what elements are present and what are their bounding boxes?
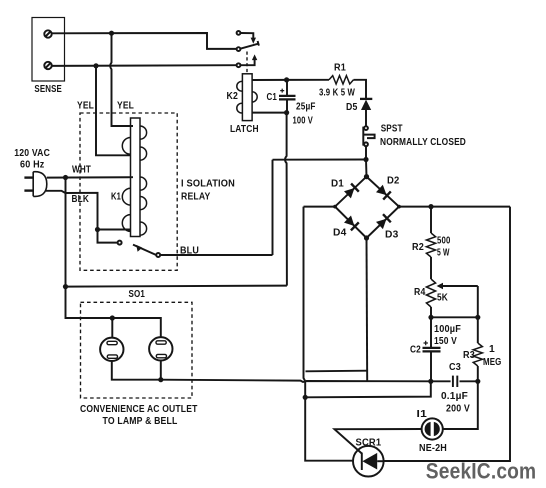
svg-text:CONVENIENCE AC OUTLET: CONVENIENCE AC OUTLET bbox=[80, 404, 198, 415]
wire to up arrow bbox=[240, 60, 254, 65]
svg-text:5K: 5K bbox=[437, 293, 448, 304]
svg-text:I1: I1 bbox=[417, 409, 428, 420]
svg-text:0.1µF: 0.1µF bbox=[441, 391, 468, 402]
wire right rail bbox=[384, 207, 510, 461]
wire bridge left to rail bbox=[304, 206, 336, 208]
svg-text:120 VAC: 120 VAC bbox=[14, 148, 50, 159]
svg-text:TO LAMP & BELL: TO LAMP & BELL bbox=[103, 416, 178, 427]
wire to left outlet bbox=[111, 318, 113, 338]
node below SPST bbox=[363, 157, 368, 162]
svg-text:BLU: BLU bbox=[180, 246, 199, 257]
node left rail 286 bbox=[63, 284, 68, 289]
node outlet bottom bbox=[158, 377, 163, 382]
svg-text:K2: K2 bbox=[227, 91, 239, 102]
svg-text:LATCH: LATCH bbox=[230, 124, 259, 135]
wire winding exit to BLK node bbox=[98, 229, 131, 231]
bridge edges bbox=[335, 177, 399, 238]
node bridge left bbox=[333, 205, 337, 209]
wire K2 top to C1 node bbox=[252, 79, 287, 81]
svg-text:NE-2H: NE-2H bbox=[419, 443, 447, 454]
svg-text:R3: R3 bbox=[463, 350, 475, 361]
svg-text:C3: C3 bbox=[449, 362, 461, 373]
svg-text:C1: C1 bbox=[267, 92, 278, 103]
wire C1 bottom drop bbox=[285, 113, 287, 286]
node C3 right bbox=[475, 379, 480, 384]
node bridge bottom bbox=[364, 235, 369, 240]
isolation relay dashed box bbox=[80, 113, 177, 270]
node C1 top bbox=[284, 77, 289, 82]
node SO1 feed bbox=[110, 315, 115, 320]
wire YEL left vertical bbox=[96, 66, 131, 156]
node junction bottom yel bbox=[93, 63, 98, 68]
resistor R1 bbox=[329, 76, 354, 84]
wire K2 bottom to C1 bottom node bbox=[252, 112, 287, 114]
svg-text:3.9 K 5 W: 3.9 K 5 W bbox=[319, 88, 355, 99]
plug 120VAC bbox=[24, 176, 33, 178]
capacitor C2 bbox=[430, 317, 432, 347]
svg-text:100µF: 100µF bbox=[434, 324, 461, 335]
sense screw top bbox=[44, 30, 51, 37]
svg-text:MEG: MEG bbox=[483, 357, 502, 368]
svg-text:D3: D3 bbox=[385, 230, 399, 241]
outlet right bbox=[149, 337, 172, 360]
wire SPST to node bbox=[365, 146, 367, 159]
relay K2 contact top bbox=[237, 31, 241, 35]
R4 wiper arrow bbox=[442, 285, 478, 287]
capacitor C3 bbox=[431, 380, 451, 382]
svg-text:100 V: 100 V bbox=[293, 116, 314, 127]
wire long 286 bbox=[66, 286, 287, 287]
svg-text:60 Hz: 60 Hz bbox=[20, 160, 45, 171]
wire SPST node to bridge bbox=[365, 160, 368, 177]
wire mid vertical rail bbox=[304, 207, 353, 461]
svg-text:SENSE: SENSE bbox=[34, 84, 62, 95]
node junction top yel bbox=[109, 31, 114, 36]
wire sense bottom bbox=[52, 64, 237, 67]
svg-text:D1: D1 bbox=[331, 179, 344, 190]
diode D2 bbox=[376, 185, 387, 195]
svg-text:SO1: SO1 bbox=[129, 289, 146, 300]
svg-text:200 V: 200 V bbox=[446, 404, 470, 415]
svg-text:YEL: YEL bbox=[77, 101, 94, 112]
capacitor C1 bbox=[286, 80, 288, 95]
wire WHT bbox=[47, 176, 133, 178]
svg-text:5 W: 5 W bbox=[437, 248, 450, 259]
wire R3 bottom to lamp bbox=[443, 381, 478, 429]
outlet left bbox=[100, 338, 123, 361]
mechanical link dashed bbox=[246, 52, 248, 74]
wire R1 to D5 bbox=[354, 80, 367, 99]
svg-text:R2: R2 bbox=[412, 242, 424, 253]
wires outlet bottoms bbox=[112, 361, 161, 380]
svg-text:NORMALLY CLOSED: NORMALLY CLOSED bbox=[380, 137, 466, 148]
K1 top winding bbox=[140, 126, 147, 139]
switch SPST normally closed bbox=[364, 126, 368, 130]
node R2 top bbox=[428, 204, 433, 209]
svg-text:SCR1: SCR1 bbox=[356, 438, 382, 449]
svg-text:R4: R4 bbox=[414, 287, 426, 298]
potentiometer R4 bbox=[426, 279, 435, 307]
wire R2 to R4 bbox=[430, 257, 432, 279]
wire node join 317 bbox=[431, 316, 478, 318]
neon lamp I1 bbox=[422, 418, 443, 439]
svg-text:SPST: SPST bbox=[381, 124, 403, 135]
resistor R3 bbox=[477, 317, 479, 343]
outlet box SO1 dashed bbox=[81, 302, 193, 398]
svg-text:150 V: 150 V bbox=[434, 336, 457, 347]
wire branch to mid rail bbox=[306, 370, 368, 373]
svg-text:500: 500 bbox=[437, 236, 451, 247]
wire BLU riser bbox=[272, 160, 274, 255]
wire long bottom to C3 node bbox=[161, 380, 431, 382]
diode D5 bbox=[360, 98, 372, 100]
relay coil K2 bbox=[242, 74, 252, 121]
svg-text:YEL: YEL bbox=[117, 101, 134, 112]
wire YEL right vertical bbox=[110, 33, 133, 126]
relay K2 contact bottom bbox=[237, 63, 241, 67]
node mid rail 397 bbox=[303, 395, 308, 400]
wire C1 to R1 bbox=[287, 79, 329, 81]
K1 bottom winding bbox=[140, 177, 147, 190]
svg-text:K1: K1 bbox=[111, 192, 121, 203]
node WHT bbox=[63, 175, 68, 180]
svg-text:D2: D2 bbox=[387, 176, 400, 187]
svg-text:WHT: WHT bbox=[72, 165, 91, 176]
node C2 top bbox=[428, 315, 433, 320]
diode D4 bbox=[344, 216, 354, 227]
wire contact arm with down arrow bbox=[240, 33, 253, 38]
K1 contact fixed bbox=[98, 230, 118, 243]
wire BLK bbox=[46, 191, 98, 230]
svg-text:SeekIC.com: SeekIC.com bbox=[426, 459, 537, 484]
node bridge top bbox=[364, 174, 369, 179]
node BLK coil bbox=[95, 227, 100, 232]
node C1 bottom bbox=[284, 110, 289, 115]
wire BLU bbox=[160, 254, 272, 256]
node C3 left bbox=[428, 379, 433, 384]
wire mid node to C2 node bbox=[305, 381, 431, 397]
svg-text:I SOLATION: I SOLATION bbox=[181, 179, 235, 190]
movable arm bbox=[240, 44, 258, 49]
node R3 top bbox=[475, 315, 480, 320]
svg-text:RELAY: RELAY bbox=[181, 192, 211, 203]
K1 contact arm bbox=[133, 245, 156, 255]
svg-text:1: 1 bbox=[489, 344, 495, 355]
sense terminal box bbox=[32, 18, 65, 82]
svg-text:D4: D4 bbox=[333, 228, 347, 239]
svg-text:R1: R1 bbox=[334, 63, 346, 74]
diode D3 bbox=[376, 219, 387, 229]
svg-text:D5: D5 bbox=[346, 102, 358, 113]
wire left rail down bbox=[66, 178, 161, 338]
svg-text:25µF: 25µF bbox=[296, 102, 316, 113]
sense screw bottom bbox=[44, 62, 51, 69]
relay coil K1 core bbox=[131, 118, 141, 237]
wire horizontal 159 bbox=[273, 159, 367, 161]
svg-text:C2: C2 bbox=[410, 345, 421, 356]
relay K2 contact middle bbox=[237, 47, 241, 51]
wire sense top to contacts bbox=[52, 33, 237, 49]
SCR1 bbox=[353, 446, 384, 477]
wire lamp left to gate bbox=[335, 429, 422, 454]
wire bridge right to right rail bbox=[399, 206, 510, 208]
node bridge right bbox=[397, 205, 401, 209]
wire R4 bottom bbox=[430, 307, 432, 317]
resistor R2 bbox=[430, 207, 432, 233]
wire bridge bottom drop bbox=[366, 238, 369, 381]
diode D1 bbox=[344, 188, 355, 198]
